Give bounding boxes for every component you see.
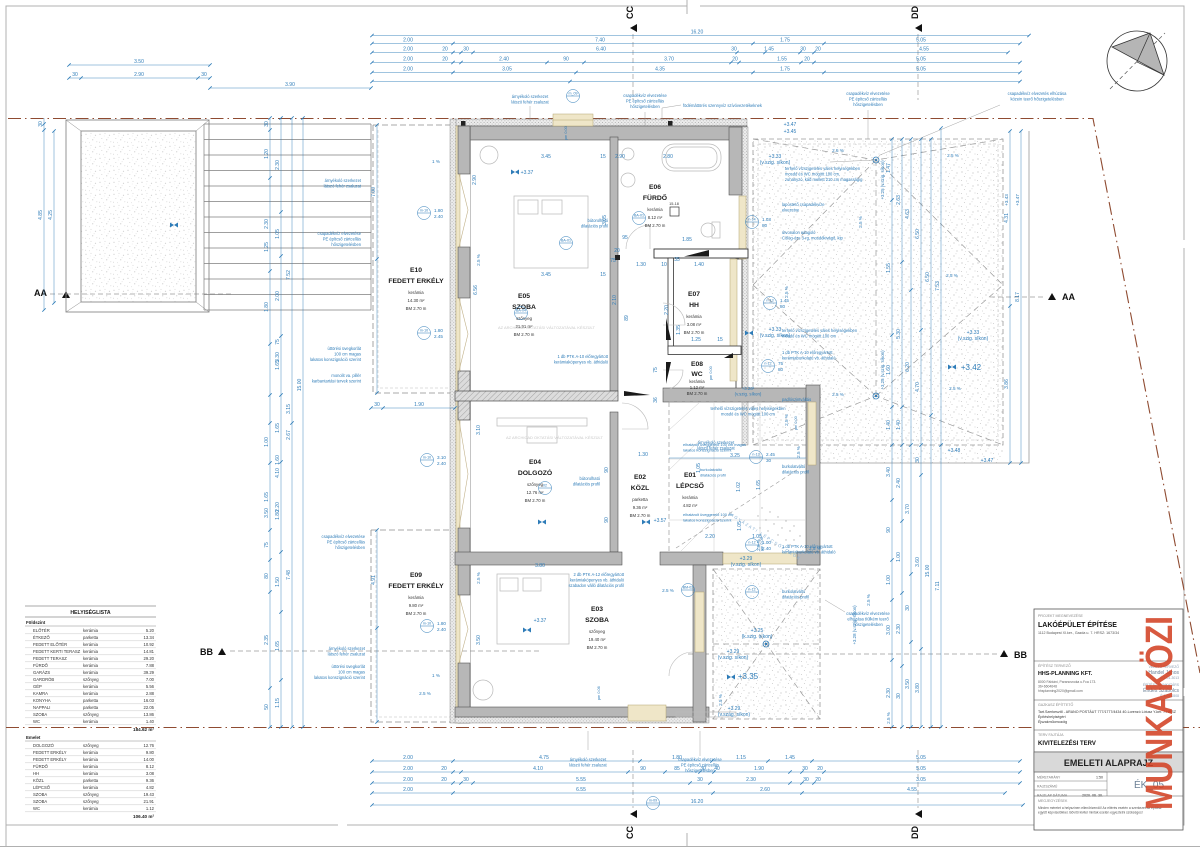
svg-text:8.12 m²: 8.12 m²: [648, 215, 663, 220]
svg-text:n-13: n-13: [766, 299, 773, 303]
door wedges: [624, 250, 709, 396]
svg-text:AA: AA: [34, 288, 47, 298]
svg-text:5.20: 5.20: [146, 628, 155, 633]
svg-text:szőnyeg: szőnyeg: [589, 629, 606, 634]
svg-text:BM 2.70 m: BM 2.70 m: [684, 330, 705, 335]
E03 east wall: [693, 565, 706, 722]
svg-text:20: 20: [614, 248, 620, 254]
svg-text:KONYHA: KONYHA: [33, 698, 51, 703]
svg-text:2.30: 2.30: [896, 624, 902, 634]
svg-text:BA-01: BA-01: [561, 239, 571, 243]
svg-text:n-12: n-12: [748, 588, 755, 592]
svg-text:1.65: 1.65: [756, 480, 762, 490]
svg-text:KIVITELEZÉSI TERV: KIVITELEZÉSI TERV: [1038, 739, 1096, 747]
svg-text:csapadékvíz elvezetés elhúzása: csapadékvíz elvezetés elhúzásaközein tee…: [1008, 91, 1067, 102]
corridor / E07 west wall: [668, 258, 674, 350]
svg-text:80: 80: [780, 304, 786, 309]
svg-text:90: 90: [604, 467, 610, 473]
svg-text:1.40: 1.40: [146, 719, 155, 724]
svg-text:1.12 m²: 1.12 m²: [690, 385, 705, 390]
svg-text:1.40: 1.40: [896, 420, 902, 430]
svg-text:2.00: 2.00: [275, 291, 281, 301]
svg-text:2.40: 2.40: [499, 57, 509, 63]
svg-text:3.90: 3.90: [285, 82, 295, 88]
svg-text:+3.48: +3.48: [948, 448, 961, 454]
left garden terrace: [66, 120, 209, 312]
svg-text:7.40: 7.40: [595, 38, 605, 44]
svg-text:kerámia: kerámia: [83, 691, 99, 696]
svg-text:kerámia: kerámia: [83, 757, 99, 762]
svg-text:PROJEKT MEGNEVEZÉSE: PROJEKT MEGNEVEZÉSE: [1038, 613, 1083, 618]
svg-text:30: 30: [374, 402, 380, 408]
svg-text:95: 95: [622, 235, 628, 241]
svg-text:E01: E01: [684, 472, 696, 479]
svg-text:30: 30: [905, 605, 911, 611]
west wall: insulation strip: [450, 119, 456, 723]
svg-text:90: 90: [886, 527, 892, 533]
svg-text:KÖZL: KÖZL: [631, 483, 650, 492]
svg-text:2 db PTK A-12 előregyártottker: 2 db PTK A-12 előregyártottkerámiaköpeny…: [568, 572, 624, 588]
svg-text:1 %: 1 %: [432, 159, 440, 164]
wall south of stairs / E03 north-east: [660, 552, 723, 565]
svg-text:kerámia: kerámia: [689, 379, 705, 384]
svg-text:80: 80: [762, 223, 768, 228]
svg-text:RAJZSZÁMÚ: RAJZSZÁMÚ: [1037, 783, 1058, 788]
svg-text:HH: HH: [33, 771, 39, 776]
svg-text:GARÁZS: GARÁZS: [33, 670, 50, 675]
svg-text:90: 90: [640, 766, 646, 772]
svg-text:2.5 %: 2.5 %: [784, 414, 789, 426]
svg-text:kerámia: kerámia: [83, 663, 99, 668]
svg-text:1.85: 1.85: [682, 237, 692, 243]
svg-text:20: 20: [804, 57, 810, 63]
svg-text:2.45: 2.45: [766, 452, 775, 457]
svg-text:1.20: 1.20: [264, 149, 270, 159]
svg-text:CC: CC: [625, 826, 635, 839]
svg-text:4.55: 4.55: [907, 787, 917, 793]
svg-text:2.5 %: 2.5 %: [858, 216, 863, 228]
E02/E01 dashed divider: [668, 402, 670, 552]
svg-text:8000 Fábiáni, Parancsnoka u.Fc: 8000 Fábiáni, Parancsnoka u.Fca 173.: [1038, 680, 1096, 684]
svg-text:16.20: 16.20: [691, 30, 704, 36]
section marker BB left: [200, 647, 540, 657]
svg-text:90: 90: [604, 517, 610, 523]
svg-text:ÉPÍTÉSZ TERVEZŐ: ÉPÍTÉSZ TERVEZŐ: [1038, 663, 1071, 668]
central spine wall: [610, 137, 618, 391]
svg-text:9.36: 9.36: [146, 778, 155, 783]
svg-text:3.15: 3.15: [286, 404, 292, 414]
svg-text:+3.47: +3.47: [1015, 194, 1020, 206]
svg-text:2.00: 2.00: [403, 57, 413, 63]
svg-text:FÜRDŐ: FÜRDŐ: [643, 193, 667, 202]
svg-text:3.30: 3.30: [275, 352, 281, 362]
svg-text:2.5 %: 2.5 %: [832, 392, 844, 397]
svg-text:4.91: 4.91: [371, 575, 377, 585]
svg-text:3.45: 3.45: [541, 154, 551, 160]
svg-text:12.76 m²: 12.76 m²: [527, 490, 545, 495]
svg-text:BM 2.70 m: BM 2.70 m: [406, 306, 427, 311]
svg-text:m_09: m_09: [569, 92, 578, 96]
svg-text:2.90: 2.90: [615, 154, 625, 160]
svg-text:2.00: 2.00: [403, 787, 413, 793]
svg-text:m-09: m-09: [649, 799, 657, 803]
svg-text:+3.25 (v.szig. síkon): +3.25 (v.szig. síkon): [880, 160, 885, 200]
svg-text:6.50: 6.50: [915, 229, 921, 239]
svg-text:75: 75: [610, 258, 616, 264]
svg-text:22.05: 22.05: [144, 705, 155, 710]
svg-text:2.5 %: 2.5 %: [946, 273, 958, 278]
svg-text:15: 15: [600, 154, 606, 160]
svg-text:4.10: 4.10: [533, 766, 543, 772]
svg-text:80: 80: [778, 367, 784, 372]
svg-text:LÉPCSŐ: LÉPCSŐ: [33, 785, 51, 790]
svg-text:14.81: 14.81: [144, 649, 155, 654]
svg-text:12.76: 12.76: [144, 743, 155, 748]
svg-text:árnyékoló szerkezetlátszó fehé: árnyékoló szerkezetlátszó fehér zsaluzat: [324, 178, 362, 189]
svg-text:FEDETT ERKÉLY: FEDETT ERKÉLY: [388, 276, 444, 285]
svg-text:3.05: 3.05: [916, 777, 926, 783]
door arcs: [622, 225, 693, 676]
svg-text:1 db PTK A-10 előregyártottker: 1 db PTK A-10 előregyártottkerámiaköpeny…: [554, 354, 609, 365]
svg-text:E09: E09: [410, 572, 422, 579]
svg-text:2.00: 2.00: [403, 38, 413, 44]
svg-text:19.43: 19.43: [144, 792, 155, 797]
svg-text:3.08: 3.08: [146, 771, 155, 776]
svg-text:10.92: 10.92: [144, 642, 155, 647]
svg-text:2.5 %: 2.5 %: [947, 153, 959, 158]
svg-text:4.75: 4.75: [539, 755, 549, 761]
svg-text:1.80: 1.80: [275, 510, 281, 520]
svg-text:+3.45: +3.45: [784, 129, 797, 135]
svg-text:2.5 %: 2.5 %: [886, 712, 891, 724]
svg-text:2.5 %: 2.5 %: [949, 386, 961, 391]
svg-text:29.20: 29.20: [144, 656, 155, 661]
svg-text:kerámia: kerámia: [682, 495, 698, 500]
svg-text:kerámia: kerámia: [686, 314, 702, 319]
svg-text:20: 20: [442, 47, 448, 53]
svg-text:5.05: 5.05: [916, 38, 926, 44]
svg-text:terhelő vízszigetelés váles he: terhelő vízszigetelés váles helyiségekbe…: [710, 406, 786, 417]
svg-text:pm 0.00: pm 0.00: [794, 416, 798, 430]
svg-text:Építéshelyiségért: Építéshelyiségért: [1038, 714, 1066, 719]
svg-text:+3.47: +3.47: [981, 458, 994, 464]
svg-text:02: 02: [543, 484, 547, 488]
svg-text:1.80: 1.80: [264, 302, 270, 312]
svg-text:9.80: 9.80: [146, 750, 155, 755]
E07/E08 divider: [668, 346, 741, 355]
svg-text:30: 30: [697, 777, 703, 783]
svg-text:30: 30: [201, 72, 207, 78]
svg-text:4.70: 4.70: [915, 382, 921, 392]
svg-text:KAMRA: KAMRA: [33, 691, 48, 696]
svg-text:30: 30: [896, 693, 902, 699]
svg-text:8.12: 8.12: [146, 764, 155, 769]
svg-text:m-10: m-10: [420, 329, 428, 333]
svg-text:30: 30: [264, 121, 270, 127]
svg-text:MÉRETARÁNY: MÉRETARÁNY: [1037, 774, 1061, 779]
svg-text:20: 20: [442, 57, 448, 63]
svg-text:36+6604648: 36+6604648: [1038, 685, 1057, 689]
svg-text:E04: E04: [529, 459, 541, 466]
svg-text:1.00: 1.00: [896, 552, 902, 562]
svg-text:parketta: parketta: [632, 497, 648, 502]
svg-text:pm 0.00: pm 0.00: [564, 126, 568, 140]
svg-text:parketta: parketta: [83, 705, 99, 710]
svg-text:2.5 %: 2.5 %: [419, 691, 431, 696]
svg-text:2.5 %: 2.5 %: [796, 446, 801, 458]
svg-text:15.00: 15.00: [297, 379, 303, 392]
svg-text:LÉPCSŐ: LÉPCSŐ: [676, 481, 704, 490]
east wall upper (E06/E07/E08): [742, 127, 748, 445]
svg-text:4.10: 4.10: [275, 468, 281, 478]
svg-text:kerámia: kerámia: [83, 771, 99, 776]
svg-text:3.70: 3.70: [905, 504, 911, 514]
svg-text:16.20: 16.20: [691, 799, 704, 805]
svg-text:1.25: 1.25: [264, 242, 270, 252]
svg-text:kerámia: kerámia: [408, 290, 424, 295]
svg-text:1.80: 1.80: [437, 621, 446, 626]
svg-text:1.30: 1.30: [638, 452, 648, 458]
svg-text:75: 75: [264, 542, 270, 548]
E05/E04 divider: [455, 391, 618, 401]
svg-text:4.85: 4.85: [38, 210, 44, 220]
svg-text:2.40: 2.40: [437, 461, 446, 466]
svg-text:2.35: 2.35: [264, 635, 270, 645]
svg-text:padlószintváltás: padlószintváltás: [782, 397, 811, 402]
svg-text:6.20: 6.20: [905, 362, 911, 372]
svg-text:1.40: 1.40: [886, 420, 892, 430]
svg-text:FEDETT ERKÉLY: FEDETT ERKÉLY: [388, 581, 444, 590]
svg-text:2.63: 2.63: [896, 195, 902, 205]
svg-text:1.05: 1.05: [737, 521, 743, 531]
svg-text:3.50: 3.50: [905, 679, 911, 689]
svg-text:FEDETT KERTI TERASZ: FEDETT KERTI TERASZ: [33, 649, 81, 654]
svg-text:BA-01: BA-01: [634, 214, 644, 218]
svg-text:7.11: 7.11: [935, 581, 941, 591]
svg-text:1.30: 1.30: [636, 262, 646, 268]
svg-text:AA: AA: [1062, 292, 1075, 302]
svg-text:DD: DD: [910, 826, 920, 839]
svg-text:30: 30: [463, 777, 469, 783]
svg-text:3.45: 3.45: [541, 272, 551, 278]
svg-text:GAZKASZ ÉPÍTTETŐ: GAZKASZ ÉPÍTTETŐ: [1038, 702, 1074, 707]
svg-text:kerámia: kerámia: [83, 670, 99, 675]
svg-text:árnyékoló szerkezetlátszó fehé: árnyékoló szerkezetlátszó fehér zsaluzat: [569, 757, 607, 768]
svg-text:19.40 m²: 19.40 m²: [589, 637, 607, 642]
svg-text:E05: E05: [518, 293, 530, 300]
svg-text:1.45: 1.45: [764, 47, 774, 53]
svg-text:1.75: 1.75: [780, 67, 790, 73]
svg-text:30: 30: [72, 72, 78, 78]
svg-text:184.62 m²: 184.62 m²: [133, 727, 154, 732]
svg-text:BM 2.70 m: BM 2.70 m: [406, 611, 427, 616]
svg-text:75: 75: [653, 367, 659, 373]
svg-text:GÉP: GÉP: [33, 684, 42, 689]
svg-text:FEDETT ELŐTÉR: FEDETT ELŐTÉR: [33, 642, 67, 647]
svg-text:BB: BB: [200, 647, 213, 657]
svg-text:n-12: n-12: [764, 362, 771, 366]
red property boundary line 1 (top): [8, 119, 1200, 674]
svg-text:30: 30: [803, 777, 809, 783]
north wall: [455, 119, 747, 126]
svg-text:m-10: m-10: [423, 622, 431, 626]
svg-text:burkolatváltódilatációs profil: burkolatváltódilatációs profil: [782, 464, 809, 475]
svg-text:+3.47: +3.47: [784, 122, 797, 128]
svg-text:Éjszakműomozóig: Éjszakműomozóig: [1038, 719, 1067, 724]
svg-text:1.25: 1.25: [691, 337, 701, 343]
svg-text:2.00: 2.00: [403, 766, 413, 772]
svg-text:burkolatváltódilatációs profil: burkolatváltódilatációs profil: [782, 589, 809, 600]
svg-text:kerámia: kerámia: [408, 595, 424, 600]
svg-text:2.90: 2.90: [134, 72, 144, 78]
svg-text:DOLGOZÓ: DOLGOZÓ: [518, 468, 552, 477]
svg-text:parketta: parketta: [83, 698, 99, 703]
svg-text:2020. 06. 30.: 2020. 06. 30.: [1082, 793, 1103, 797]
svg-text:7.88: 7.88: [146, 663, 155, 668]
svg-text:1.05: 1.05: [275, 229, 281, 239]
svg-text:Földszint: Földszint: [26, 620, 46, 625]
svg-text:hhsplanning2020@gmail.com: hhsplanning2020@gmail.com: [1038, 689, 1083, 693]
svg-text:2.5 %: 2.5 %: [476, 572, 481, 584]
svg-text:5.56: 5.56: [146, 684, 155, 689]
svg-text:3.50: 3.50: [264, 508, 270, 518]
svg-text:2.20: 2.20: [705, 534, 715, 540]
svg-text:KÖZL: KÖZL: [33, 778, 45, 783]
svg-text:GARDRÓB: GARDRÓB: [33, 677, 54, 682]
svg-text:2.10: 2.10: [612, 295, 618, 305]
svg-text:CC: CC: [625, 6, 635, 19]
svg-text:3.86: 3.86: [1004, 379, 1010, 389]
svg-text:8.17: 8.17: [1015, 292, 1021, 302]
svg-text:20: 20: [732, 57, 738, 63]
svg-text:RAJZLAP DÁTUMA: RAJZLAP DÁTUMA: [1037, 793, 1068, 797]
svg-text:6.50: 6.50: [925, 272, 931, 282]
svg-text:TERV FAJTÁJA: TERV FAJTÁJA: [1038, 733, 1064, 737]
svg-text:75: 75: [778, 361, 784, 366]
svg-text:9.80 m²: 9.80 m²: [409, 603, 424, 608]
svg-text:árnyékoló szerkezetlátszó fehé: árnyékoló szerkezetlátszó fehér zsaluzat: [328, 646, 366, 657]
svg-text:4.31: 4.31: [1004, 213, 1010, 223]
svg-text:2.30: 2.30: [746, 777, 756, 783]
E06 south wall: [654, 249, 748, 258]
east wall of stair zone: [806, 385, 820, 565]
balcony E09 dashed boundary: [371, 530, 457, 722]
svg-text:kerámia: kerámia: [83, 785, 99, 790]
svg-text:kerámia: kerámia: [83, 649, 99, 654]
compass: [1107, 31, 1167, 91]
svg-text:20: 20: [815, 777, 821, 783]
svg-text:m-10: m-10: [423, 456, 431, 460]
svg-text:30: 30: [802, 766, 808, 772]
svg-text:BB: BB: [1014, 650, 1027, 660]
svg-text:85: 85: [674, 766, 680, 772]
svg-text:5.05: 5.05: [916, 67, 926, 73]
svg-text:kerámia: kerámia: [83, 719, 99, 724]
svg-text:2.45: 2.45: [434, 334, 443, 339]
svg-text:E03: E03: [591, 606, 603, 613]
svg-text:SZOBA: SZOBA: [33, 712, 47, 717]
svg-text:10: 10: [661, 262, 667, 268]
svg-text:1.15: 1.15: [736, 755, 746, 761]
svg-text:födémáttörés szennyvíz szívóve: födémáttörés szennyvíz szívóvezetékeknek: [683, 103, 763, 108]
svg-text:n-12: n-12: [748, 541, 755, 545]
svg-text:14.00: 14.00: [144, 757, 155, 762]
svg-text:15: 15: [717, 337, 723, 343]
svg-text:90: 90: [563, 57, 569, 63]
svg-text:+3.28 (v.szig. síkon): +3.28 (v.szig. síkon): [852, 605, 857, 645]
svg-text:SZOBA: SZOBA: [33, 799, 47, 804]
svg-text:5.05: 5.05: [916, 766, 926, 772]
svg-text:árnyékoló szerkezetlátszó fehé: árnyékoló szerkezetlátszó fehér zsaluzat: [511, 94, 549, 105]
west wall gray pillars: [458, 126, 470, 174]
svg-text:4.63: 4.63: [905, 209, 911, 219]
svg-text:3.10: 3.10: [437, 455, 446, 460]
svg-text:1.47: 1.47: [886, 163, 892, 173]
red property boundary line 2 (bottom): [6, 727, 1200, 729]
svg-text:21.91: 21.91: [144, 799, 155, 804]
balcony E10 dashed boundary: [373, 125, 457, 393]
svg-text:elhatárolt üveggerelő 100 cmla: elhatárolt üveggerelő 100 cmlakatos kons…: [683, 512, 733, 523]
svg-text:együtt képviselőkkel. Bővítő k: együtt képviselőkkel. Bővítő kivitel min…: [1038, 811, 1143, 815]
svg-text:3.05: 3.05: [502, 67, 512, 73]
svg-text:szőnyeg: szőnyeg: [83, 743, 99, 748]
svg-text:2.5 %: 2.5 %: [662, 588, 674, 593]
svg-text:n-14: n-14: [748, 218, 755, 222]
svg-text:3.00: 3.00: [886, 625, 892, 635]
svg-text:1.03: 1.03: [762, 217, 771, 222]
south wall E03: [455, 717, 709, 723]
svg-text:kerámia: kerámia: [83, 628, 99, 633]
svg-text:1.50: 1.50: [275, 577, 281, 587]
svg-text:1.90: 1.90: [754, 766, 764, 772]
svg-text:+3.37: +3.37: [534, 618, 547, 624]
svg-text:1.80: 1.80: [434, 328, 443, 333]
svg-text:2.40: 2.40: [437, 627, 446, 632]
svg-text:7.52: 7.52: [286, 270, 292, 280]
svg-text:20: 20: [441, 766, 447, 772]
west wall window sashes: [459, 174, 468, 663]
svg-text:13.86: 13.86: [144, 712, 155, 717]
svg-text:szőnyeg: szőnyeg: [83, 792, 99, 797]
svg-text:2.30: 2.30: [275, 160, 281, 170]
svg-text:20: 20: [441, 777, 447, 783]
svg-text:30: 30: [463, 47, 469, 53]
svg-text:2.88: 2.88: [146, 691, 155, 696]
svg-text:AZ ARCHICAD OKTATÁSI VÁLTOZATÁ: AZ ARCHICAD OKTATÁSI VÁLTOZATÁVAL KÉSZÜL…: [506, 435, 603, 440]
svg-text:3.80: 3.80: [915, 683, 921, 693]
svg-text:1.55: 1.55: [886, 263, 892, 273]
svg-text:89: 89: [624, 315, 630, 321]
svg-text:E06: E06: [649, 184, 661, 191]
svg-text:1.15: 1.15: [275, 698, 281, 708]
svg-text:106.40 m²: 106.40 m²: [133, 814, 154, 819]
svg-text:FEDETT ERKÉLY: FEDETT ERKÉLY: [33, 757, 67, 762]
svg-text:HH: HH: [689, 302, 699, 309]
pergola shading lines: [204, 124, 371, 310]
svg-text:39.29: 39.29: [144, 670, 155, 675]
svg-text:LAKÓÉPÜLET ÉPÍTÉSE: LAKÓÉPÜLET ÉPÍTÉSE: [1038, 620, 1117, 629]
band below E08 extending east: [663, 388, 820, 402]
svg-text:20: 20: [817, 766, 823, 772]
svg-text:2.00: 2.00: [403, 47, 413, 53]
svg-text:WC: WC: [33, 719, 40, 724]
svg-text:2.00: 2.00: [403, 67, 413, 73]
svg-text:BM 2.70 m: BM 2.70 m: [587, 645, 608, 650]
svg-text:ÉTKEZŐ: ÉTKEZŐ: [33, 635, 50, 640]
svg-text:HHS-PLANNING KFT.: HHS-PLANNING KFT.: [1038, 671, 1093, 677]
svg-text:14.30 m²: 14.30 m²: [408, 298, 426, 303]
room labels: [388, 184, 707, 650]
